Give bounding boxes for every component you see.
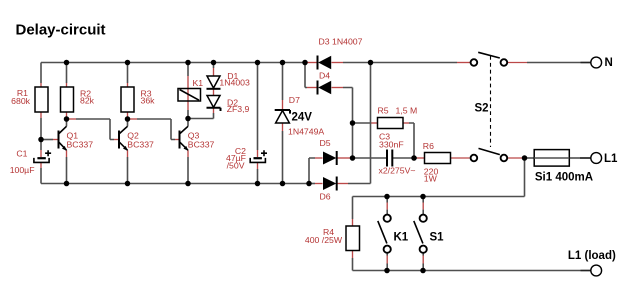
transistor Q3: [180, 126, 189, 151]
wire K1 coil top: [187, 63, 189, 77]
wire node A to Q1 base: [41, 139, 53, 141]
fuse Si1: [534, 150, 569, 167]
wire 0V to D5 anode: [309, 158, 315, 184]
wire D3 anode to N node: [332, 62, 344, 64]
wire fuse node down to contact bar: [524, 158, 526, 197]
wire N node to S2 top pole: [457, 62, 471, 64]
svg-text:N: N: [605, 57, 613, 69]
svg-text:R5: R5: [378, 106, 389, 116]
junction dots base row: [38, 116, 191, 143]
junction dots 0V rail: [64, 181, 312, 187]
svg-text:330nF: 330nF: [379, 140, 404, 150]
resistor R2: [61, 87, 74, 112]
wire Q1 collector: [66, 121, 68, 127]
wire top +24V rail: [41, 62, 305, 64]
wire D5 cathode to C3 node: [337, 157, 353, 159]
transistor Q2: [119, 126, 128, 151]
capacitor C3: [387, 150, 392, 167]
svg-text:BC337: BC337: [67, 139, 94, 149]
svg-text:24V: 24V: [292, 112, 313, 124]
wire R6 left: [414, 157, 417, 159]
wire contact bar: [353, 196, 525, 198]
diode D4: [318, 81, 332, 95]
svg-text:D5: D5: [320, 138, 331, 148]
wire S2 top pole to N terminal: [508, 62, 527, 64]
wire R1 bottom to node A: [40, 112, 42, 118]
wire Q3 emitter: [187, 150, 189, 157]
svg-text:D3 1N4007: D3 1N4007: [319, 36, 363, 46]
svg-text:L1: L1: [604, 153, 618, 165]
wire C2 top: [257, 63, 259, 151]
relay coil K1: [178, 89, 201, 102]
wire bottom 0V rail: [41, 183, 309, 185]
svg-text:S2: S2: [475, 103, 489, 115]
svg-text:100µF: 100µF: [10, 165, 35, 175]
wire S1 bottom: [422, 253, 424, 255]
capacitor C2: [250, 150, 267, 162]
svg-text:1N4003: 1N4003: [219, 78, 250, 88]
diode D1: [207, 76, 221, 89]
wire fuse right to L1 terminal: [569, 157, 580, 159]
junction dots top rail: [64, 60, 374, 66]
switch S1: [414, 215, 427, 253]
wire Q3 collector: [187, 121, 189, 127]
wire rail to D3: [305, 62, 317, 64]
svg-text:680k: 680k: [11, 96, 30, 106]
diode D5: [323, 151, 337, 165]
svg-text:1W: 1W: [424, 173, 438, 183]
wire D7 bottom: [282, 124, 284, 132]
wire 0V to D6 anode: [309, 183, 315, 185]
wire N node vertical to D6: [370, 63, 372, 184]
capacitor C1: [34, 150, 51, 162]
wire K1 contact top: [386, 197, 388, 203]
terminal L1 load: [591, 265, 602, 276]
wire Q2 emitter: [127, 150, 129, 157]
svg-text:82k: 82k: [80, 96, 95, 106]
wire K1 coil bottom: [187, 101, 189, 110]
wire Q2 collector node to Q3 base: [129, 118, 137, 120]
wire D1 to D2: [213, 89, 215, 95]
switch S2 link: [490, 56, 492, 147]
resistor R5: [378, 118, 404, 129]
wire R5 to C3 node link: [352, 123, 354, 158]
wire C2 bottom: [257, 162, 259, 169]
wire C3 left: [353, 157, 387, 159]
svg-text:Delay-circuit: Delay-circuit: [16, 22, 106, 39]
svg-text:D4: D4: [319, 70, 330, 80]
wire C1 to 0V rail: [40, 162, 42, 168]
relay contact K1: [378, 215, 391, 253]
wire K1 contact bottom: [386, 253, 388, 255]
svg-text:K1: K1: [394, 232, 409, 244]
svg-text:Si1 400mA: Si1 400mA: [535, 172, 593, 184]
wire Q2 collector: [127, 121, 129, 127]
resistor R6: [425, 153, 451, 164]
transistor Q1: [59, 126, 67, 151]
wire R1 top: [40, 63, 42, 84]
wire S2 bottom pole to fuse node: [508, 157, 525, 159]
wire Q1 emitter: [66, 150, 68, 157]
wire D4 anode to R5 node: [332, 87, 344, 89]
wire D2 bottom to K1 node: [213, 108, 215, 113]
resistor R4: [346, 226, 360, 251]
zener diode D2: [207, 96, 221, 112]
svg-text:400 /25W: 400 /25W: [305, 235, 343, 245]
switch S2 pole b: [471, 148, 508, 161]
svg-text:L1 (load): L1 (load): [568, 250, 616, 262]
svg-text:1N4749A: 1N4749A: [288, 126, 324, 136]
wire D7 top: [282, 63, 284, 101]
terminal N: [591, 57, 602, 68]
switch S2 pole a: [471, 52, 508, 66]
svg-text:C1: C1: [16, 149, 27, 159]
svg-text:x2/275V~: x2/275V~: [379, 166, 416, 176]
diode D3: [318, 56, 332, 70]
resistor R3: [121, 87, 134, 112]
wire Q1 collector node to Q2 base: [68, 118, 76, 120]
wire S1 top: [422, 197, 424, 203]
wire D1 top: [213, 63, 215, 69]
svg-text:BC337: BC337: [127, 139, 154, 149]
resistor R1: [35, 87, 48, 112]
svg-text:S1: S1: [430, 232, 445, 244]
wire R5 left: [353, 122, 372, 124]
wire R3 bottom: [127, 112, 129, 119]
wire node A to C1: [40, 140, 42, 151]
diode D6: [323, 177, 337, 191]
svg-text:R6: R6: [423, 141, 434, 151]
wire R2 top: [66, 63, 68, 84]
junction dots supply section: [350, 120, 528, 273]
wire R2 bottom: [66, 112, 68, 119]
wire D6 cathode to N branch: [337, 183, 348, 185]
svg-text:/50V: /50V: [227, 161, 245, 171]
wire R3 top: [127, 63, 129, 84]
wire fuse left: [525, 157, 536, 159]
wire load rail to L1 load terminal: [353, 270, 581, 272]
svg-text:36k: 36k: [141, 96, 156, 106]
svg-text:K1: K1: [193, 78, 204, 88]
svg-text:BC337: BC337: [188, 139, 215, 149]
svg-text:1,5 M: 1,5 M: [396, 106, 418, 116]
wire R5 right: [403, 122, 409, 124]
wire R4 top: [352, 197, 354, 220]
wire C3 right: [393, 157, 414, 159]
svg-text:ZF3,9: ZF3,9: [227, 104, 250, 114]
terminal L1: [591, 153, 602, 164]
wire rail branch to D4: [305, 63, 307, 88]
zener diode D7: [275, 110, 290, 123]
wire R6 to S2 bottom pole: [451, 157, 470, 159]
svg-text:D7: D7: [289, 95, 300, 105]
wire R4 bottom: [352, 251, 354, 259]
svg-text:D6: D6: [320, 191, 331, 201]
